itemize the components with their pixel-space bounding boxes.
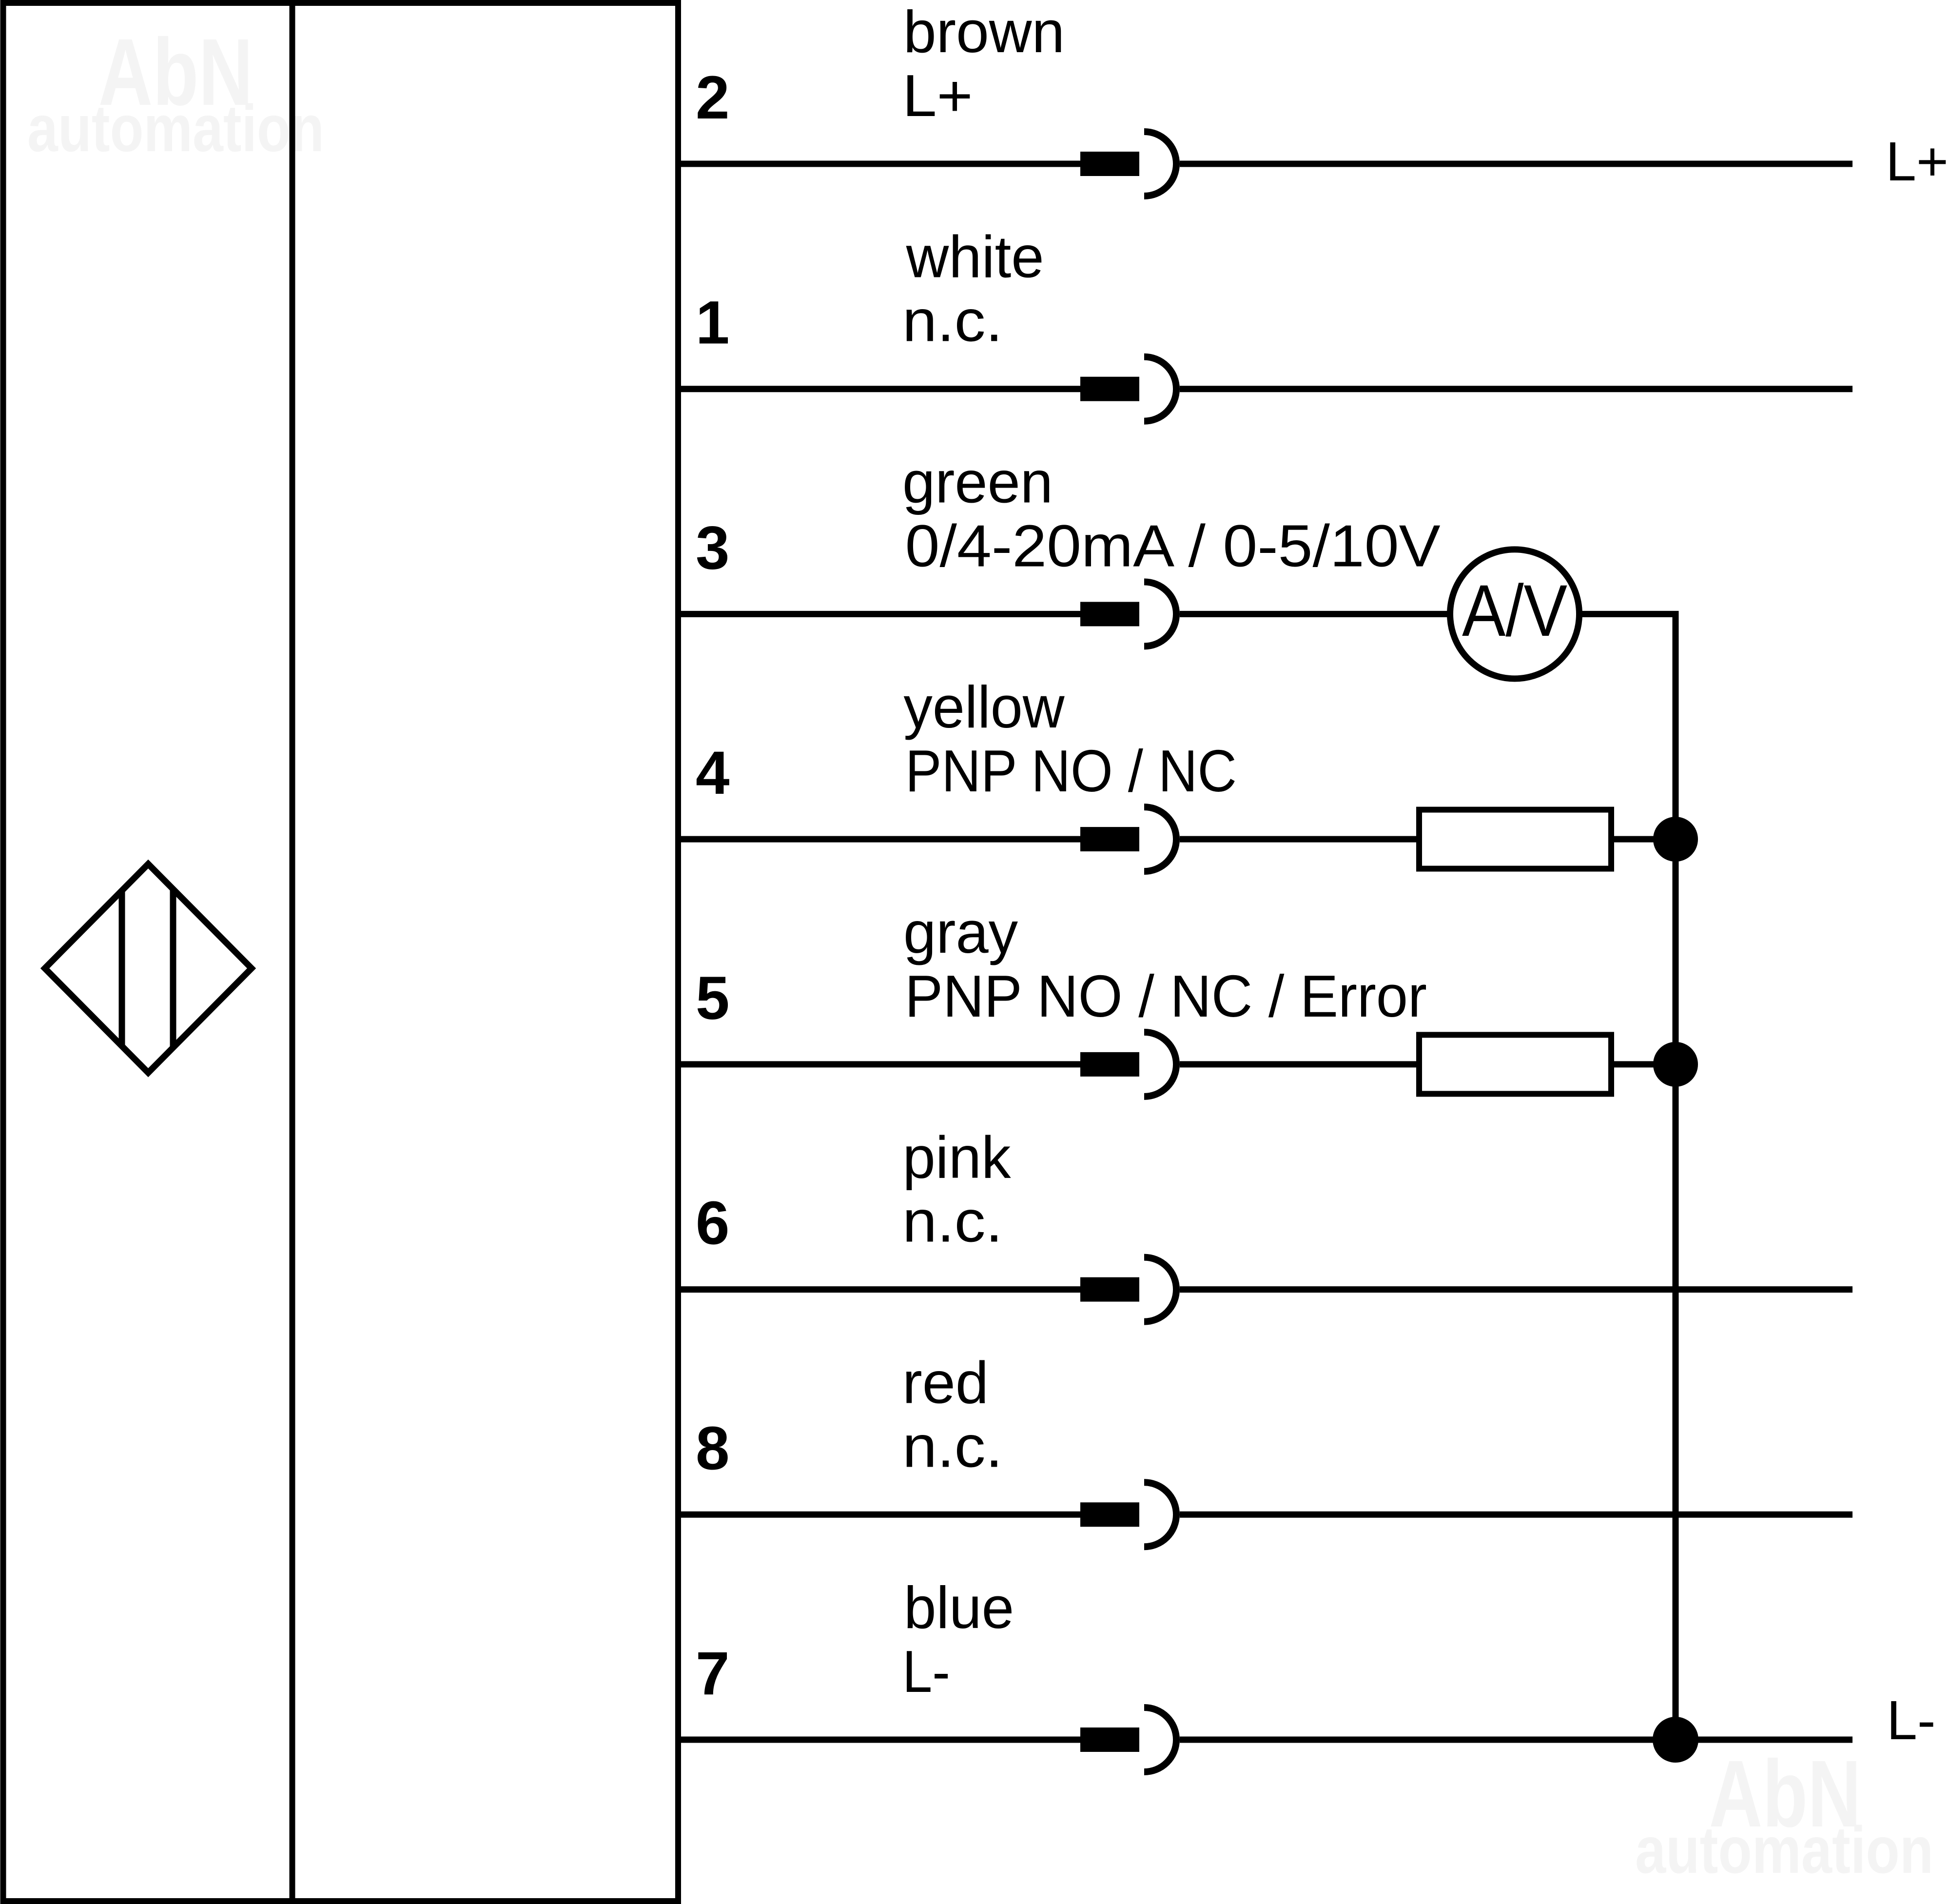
svg-text:L-: L- [902, 1638, 950, 1705]
svg-text:n.c.: n.c. [902, 1188, 1003, 1255]
svg-text:green: green [902, 449, 1053, 515]
svg-text:red: red [902, 1349, 989, 1415]
svg-text:4: 4 [696, 739, 730, 807]
svg-text:L-: L- [1887, 1689, 1935, 1751]
svg-text:brown: brown [903, 0, 1065, 65]
svg-text:6: 6 [696, 1190, 730, 1257]
svg-text:n.c.: n.c. [902, 288, 1003, 354]
svg-text:5: 5 [696, 964, 730, 1032]
svg-text:gray: gray [903, 899, 1018, 965]
svg-text:A/V: A/V [1462, 569, 1567, 651]
svg-text:automation: automation [1635, 1813, 1933, 1887]
svg-text:8: 8 [696, 1414, 730, 1482]
svg-text:yellow: yellow [904, 674, 1065, 740]
svg-text:PNP NO / NC: PNP NO / NC [905, 738, 1237, 804]
svg-text:7: 7 [696, 1640, 730, 1708]
svg-text:PNP NO / NC / Error: PNP NO / NC / Error [905, 963, 1427, 1029]
svg-text:3: 3 [696, 514, 730, 582]
svg-text:0/4-20mA / 0-5/10V: 0/4-20mA / 0-5/10V [905, 512, 1441, 579]
svg-text:2: 2 [696, 64, 730, 132]
svg-text:1: 1 [696, 289, 730, 357]
svg-text:L+: L+ [1886, 131, 1949, 192]
svg-text:n.c.: n.c. [902, 1413, 1003, 1479]
svg-text:pink: pink [903, 1124, 1012, 1191]
svg-text:L+: L+ [902, 62, 973, 129]
svg-text:white: white [906, 224, 1044, 290]
svg-text:automation: automation [27, 91, 324, 165]
svg-text:blue: blue [904, 1574, 1014, 1641]
